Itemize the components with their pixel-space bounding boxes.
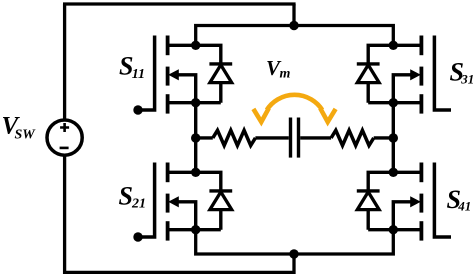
wire: right lead of load branch: [374, 136, 394, 139]
voltage source V_SW: minus sign: [60, 147, 69, 150]
transistor S11: drain stub wire: [168, 44, 196, 47]
svg-text:S41: S41: [447, 185, 472, 214]
transistor S31: drain node dot: [389, 41, 398, 50]
diode D11 (body diode of S11): connecting wires: [196, 45, 221, 102]
voltage source V_SW: plus sign: [60, 123, 69, 132]
annotation arrow: right arrowhead: [320, 108, 335, 122]
transistor S41: gate lead and gate bar: [434, 163, 451, 238]
transistor S11: drain node dot: [191, 41, 200, 50]
capacitor: right plate: [297, 118, 300, 158]
transistor S31: drain stub wire: [393, 44, 421, 47]
transistor S31: source node dot: [389, 98, 398, 107]
transistor S21: source stub wire: [168, 228, 221, 231]
transistor S11: gate lead and gate bar: [138, 36, 155, 111]
node: junction dot on upper drain rail: [289, 21, 298, 30]
transistor S11: source stub wire: [168, 101, 221, 104]
resistor (left element of load): [213, 130, 256, 145]
transistor S21: body arrowhead: [168, 196, 179, 207]
transistor S21: gate lead and gate bar: [138, 163, 155, 238]
diode D11: anode triangle: [210, 65, 232, 83]
transistor S41: source node dot: [389, 225, 398, 234]
svg-text:S11: S11: [119, 52, 145, 82]
wire: between capacitor and right resistor: [300, 136, 331, 139]
svg-text:VSW: VSW: [2, 113, 37, 143]
transistor S21: drain stub wire: [168, 171, 196, 174]
wire: upper drain rail joining S11 and S31 drains: [196, 26, 394, 46]
svg-text:Vm: Vm: [266, 56, 291, 81]
transistor S11: source node dot: [191, 98, 200, 107]
transistor S31: gate lead and gate bar: [434, 36, 451, 111]
transistor S21: source contact bar: [166, 221, 170, 240]
svg-text:S31: S31: [450, 58, 474, 87]
transistor S31: source stub wire: [368, 101, 421, 104]
transistor S21: source node dot: [191, 225, 200, 234]
transistor S41: drain node dot: [389, 168, 398, 177]
transistor S11: source contact bar: [166, 94, 170, 113]
transistor S11: drain contact bar: [166, 36, 170, 56]
wire: between left resistor and capacitor: [255, 136, 288, 139]
capacitor (centre element of load): left plate: [289, 118, 292, 158]
diode D31: cathode bar: [357, 62, 380, 65]
transistor S41: source stub wire: [368, 228, 421, 231]
wire: left lead of load branch: [196, 136, 213, 139]
transistor S11: body contact bar: [166, 67, 170, 86]
annotation arrow: left arrowhead: [253, 108, 268, 122]
node B: right load tap dot: [389, 133, 398, 142]
wire: drop from top rail to upper drain rail: [292, 4, 295, 26]
transistor S11: gate terminal dot: [133, 105, 142, 114]
resistor (right element of load): [331, 130, 374, 145]
transistor S41: body lead wire to source node: [393, 202, 412, 230]
transistor S21: gate terminal dot: [133, 232, 142, 241]
diode D41: anode triangle: [357, 192, 379, 210]
transistor S31: source contact bar: [419, 94, 423, 113]
diode D11: cathode bar: [209, 62, 232, 65]
annotation arrow: curved double-headed arc over capacitor (V_m polarity): [267, 95, 322, 110]
diode D21: anode triangle: [210, 192, 232, 210]
transistor S21: drain contact bar: [166, 163, 170, 183]
node: junction dot on lower source rail: [289, 249, 298, 258]
transistor S11: body lead wire to source node: [177, 75, 196, 103]
transistor S31: body contact bar: [419, 67, 423, 86]
transistor S31: drain contact bar: [419, 36, 423, 56]
diode D31 (body diode of S31): connecting wires: [368, 45, 393, 102]
wire: left vertical from V_SW - terminal down to bottom rail: [65, 156, 294, 272]
transistor S21: drain node dot: [191, 168, 200, 177]
transistor S21: body contact bar: [166, 194, 170, 213]
diode D21: cathode bar: [209, 189, 232, 192]
transistor S31: body arrowhead: [410, 69, 421, 80]
wire: top rail from source to H-bridge centre tap: [63, 2, 296, 5]
diode D41 (body diode of S41): connecting wires: [368, 172, 393, 229]
diode D21 (body diode of S21): connecting wires: [196, 172, 221, 229]
wire: left bridge midpoint rail (node A): [194, 103, 197, 173]
transistor S41: body arrowhead: [410, 196, 421, 207]
transistor S41: drain contact bar: [419, 163, 423, 183]
node A: left load tap dot: [191, 133, 200, 142]
transistor S11: body arrowhead: [168, 69, 179, 80]
transistor S41: source contact bar: [419, 221, 423, 240]
transistor S41: drain stub wire: [393, 171, 421, 174]
transistor S21: body lead wire to source node: [177, 202, 196, 230]
transistor S41: body contact bar: [419, 194, 423, 213]
voltage source V_SW: circle symbol: [47, 120, 82, 155]
wire: right bridge midpoint rail (node B): [392, 103, 395, 173]
transistor S31: body lead wire to source node: [393, 75, 412, 103]
wire: left vertical from V_SW + terminal up to top rail: [63, 4, 66, 119]
diode D41: cathode bar: [357, 189, 380, 192]
diode D31: anode triangle: [357, 65, 379, 83]
wire: lower source rail joining S21 and S41 sources: [196, 230, 394, 254]
svg-text:S21: S21: [119, 182, 147, 212]
